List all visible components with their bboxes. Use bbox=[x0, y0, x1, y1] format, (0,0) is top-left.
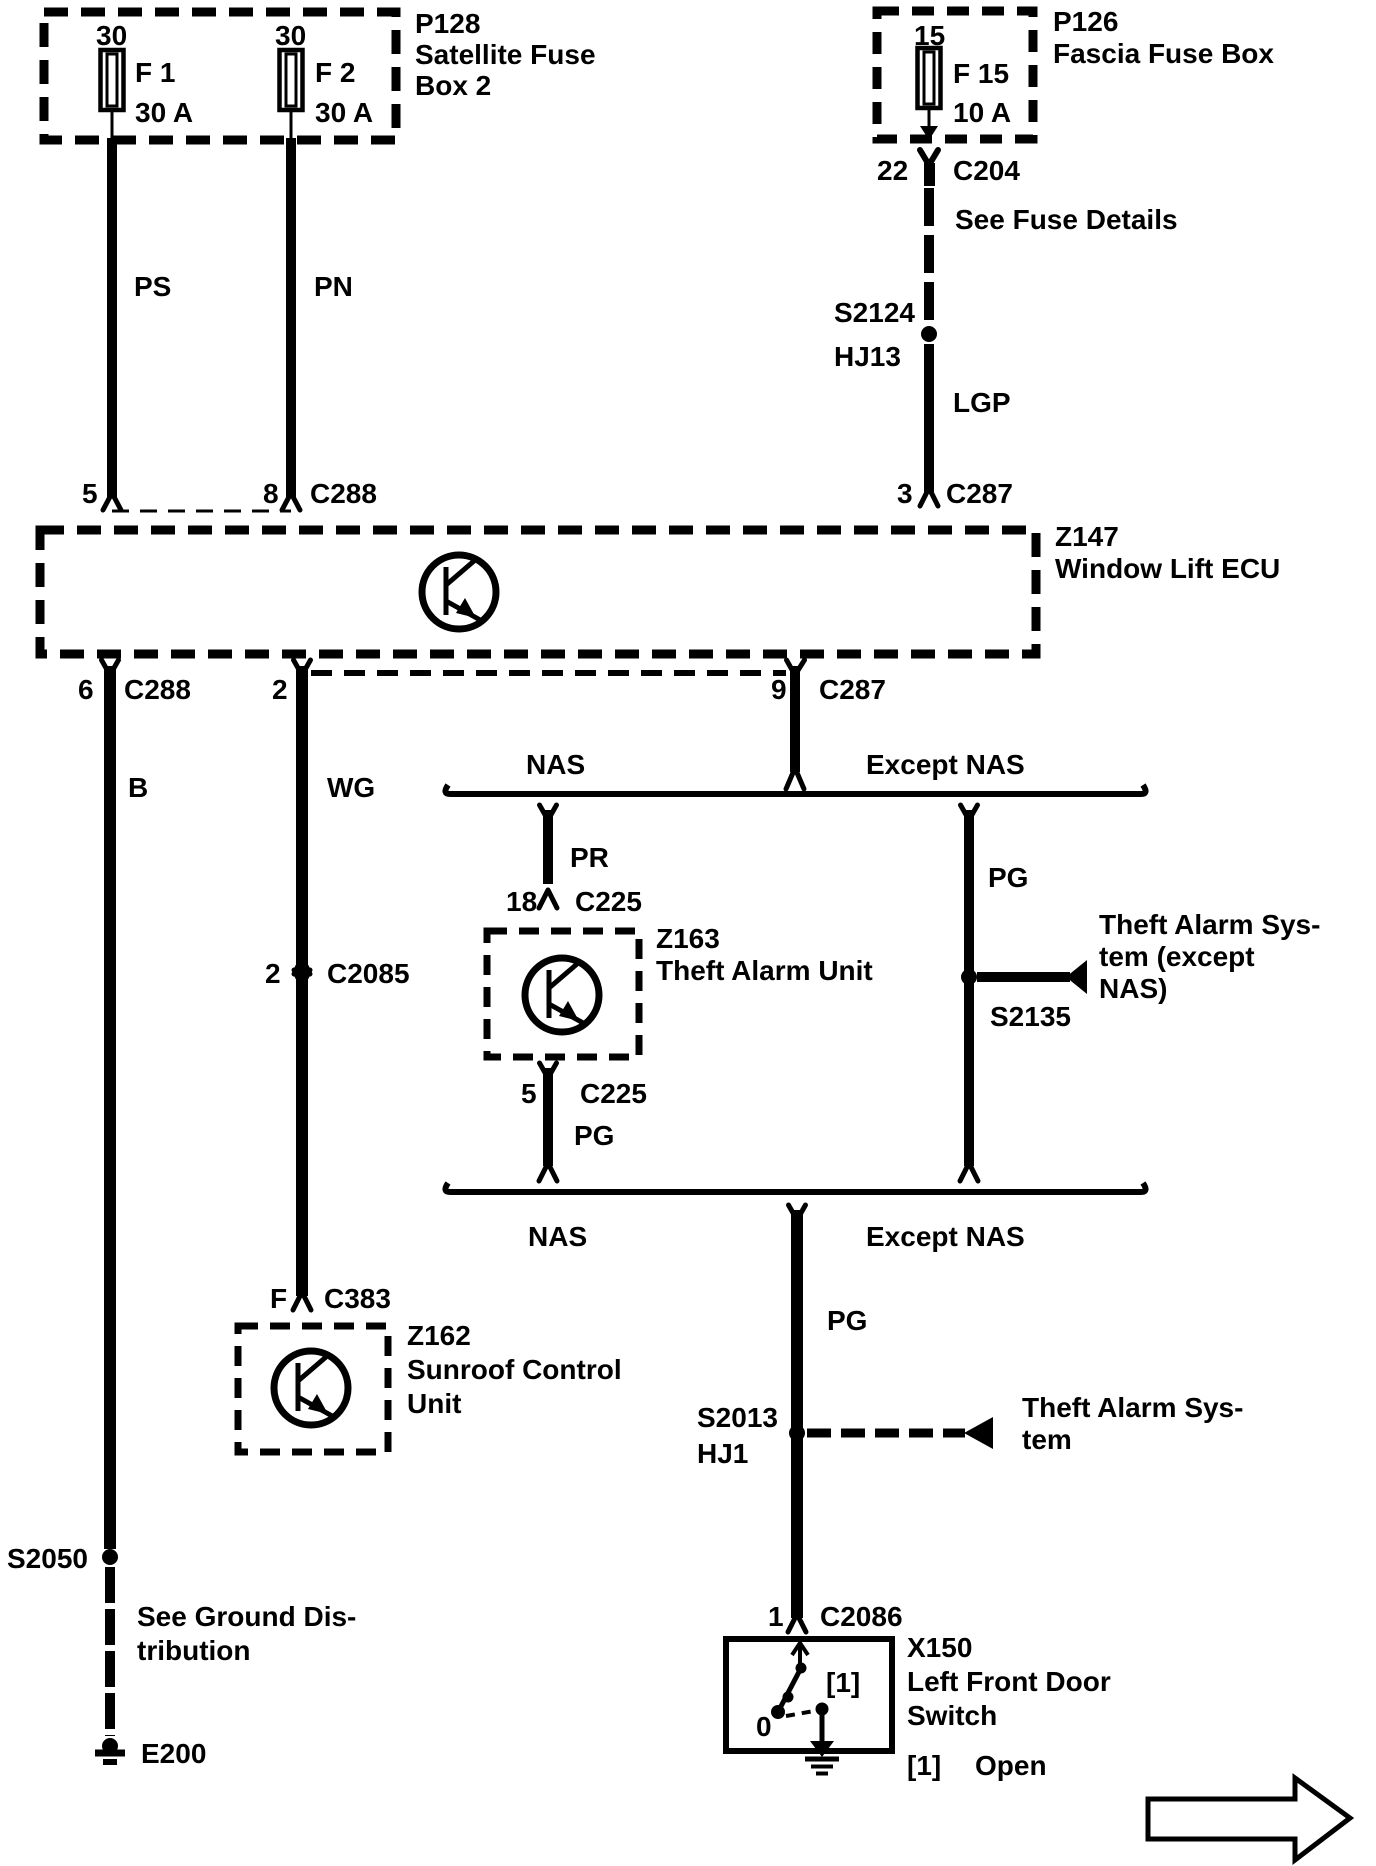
svg-text:8: 8 bbox=[263, 478, 279, 509]
svg-text:See Fuse Details: See Fuse Details bbox=[955, 204, 1178, 235]
ground inside switch bbox=[820, 1709, 825, 1744]
svg-text:Open: Open bbox=[975, 1750, 1047, 1781]
dashed link to theft alarm bbox=[807, 1429, 965, 1438]
switch lever bbox=[798, 1646, 802, 1664]
svg-text:E200: E200 bbox=[141, 1738, 206, 1769]
svg-text:C225: C225 bbox=[575, 886, 642, 917]
svg-text:C225: C225 bbox=[580, 1078, 647, 1109]
svg-text:C287: C287 bbox=[946, 478, 1013, 509]
svg-text:WG: WG bbox=[327, 772, 375, 803]
svg-text:Left Front Door: Left Front Door bbox=[907, 1666, 1111, 1697]
pin 9 connector C287 bbox=[787, 660, 805, 675]
svg-text:NAS: NAS bbox=[528, 1221, 587, 1252]
wire, see fuse details bbox=[924, 188, 934, 324]
splice S2124 HJ13 bbox=[921, 326, 937, 342]
svg-text:22: 22 bbox=[877, 155, 908, 186]
wire PS bbox=[107, 138, 117, 497]
svg-text:F 1: F 1 bbox=[135, 57, 175, 88]
pin 5 connector C288 bbox=[103, 493, 121, 510]
svg-text:HJ13: HJ13 bbox=[834, 341, 901, 372]
svg-text:[1]: [1] bbox=[826, 1667, 860, 1698]
pin 1 connector C2086 bbox=[788, 1614, 806, 1632]
svg-text:C288: C288 bbox=[310, 478, 377, 509]
svg-text:S2013: S2013 bbox=[697, 1402, 778, 1433]
svg-text:Window Lift ECU: Window Lift ECU bbox=[1055, 553, 1280, 584]
svg-text:S2050: S2050 bbox=[7, 1543, 88, 1574]
svg-text:30 A: 30 A bbox=[135, 97, 193, 128]
wire PN bbox=[286, 138, 296, 497]
theft alarm unit Z163 bbox=[487, 931, 639, 1057]
svg-text:C287: C287 bbox=[819, 674, 886, 705]
svg-text:tem (except: tem (except bbox=[1099, 941, 1255, 972]
splice S2135 bbox=[961, 969, 977, 985]
motor symbol U1 bbox=[422, 555, 496, 629]
svg-text:C2086: C2086 bbox=[820, 1601, 903, 1632]
svg-text:HJ1: HJ1 bbox=[697, 1438, 748, 1469]
svg-text:Box 2: Box 2 bbox=[415, 70, 491, 101]
svg-text:F 15: F 15 bbox=[953, 58, 1009, 89]
motor symbol bbox=[525, 958, 599, 1032]
svg-text:Theft Alarm Sys-: Theft Alarm Sys- bbox=[1022, 1392, 1243, 1423]
connector line C287 bbox=[311, 670, 786, 676]
svg-text:F: F bbox=[270, 1283, 287, 1314]
svg-text:PR: PR bbox=[570, 842, 609, 873]
svg-text:9: 9 bbox=[771, 674, 787, 705]
pin 6 connector C288 bbox=[102, 660, 119, 675]
svg-text:Unit: Unit bbox=[407, 1388, 461, 1419]
bus NAS / Except NAS upper bbox=[445, 785, 1145, 794]
svg-text:6: 6 bbox=[78, 674, 94, 705]
svg-text:PN: PN bbox=[314, 271, 353, 302]
sunroof control unit Z162 bbox=[238, 1326, 388, 1452]
svg-text:F 2: F 2 bbox=[315, 57, 355, 88]
svg-text:X150: X150 bbox=[907, 1632, 972, 1663]
svg-text:tem: tem bbox=[1022, 1424, 1072, 1455]
svg-text:Fascia Fuse Box: Fascia Fuse Box bbox=[1053, 38, 1274, 69]
svg-text:30: 30 bbox=[96, 20, 127, 51]
svg-text:B: B bbox=[128, 772, 148, 803]
svg-text:5: 5 bbox=[82, 478, 98, 509]
pin 22 connector C204 bbox=[920, 150, 938, 165]
svg-text:3: 3 bbox=[897, 478, 913, 509]
svg-text:PS: PS bbox=[134, 271, 171, 302]
splice S2013 HJ1 bbox=[789, 1425, 805, 1441]
svg-text:[1]: [1] bbox=[907, 1750, 941, 1781]
svg-text:NAS): NAS) bbox=[1099, 973, 1167, 1004]
door switch X150 bbox=[726, 1639, 892, 1751]
svg-text:18: 18 bbox=[506, 886, 537, 917]
fuse box P126 bbox=[877, 11, 1033, 139]
svg-text:tribution: tribution bbox=[137, 1635, 251, 1666]
svg-text:C383: C383 bbox=[324, 1283, 391, 1314]
svg-text:10 A: 10 A bbox=[953, 97, 1011, 128]
pin 5 wire PG bbox=[540, 1063, 557, 1078]
motor symbol bbox=[274, 1351, 348, 1425]
svg-text:5: 5 bbox=[521, 1078, 537, 1109]
svg-text:LGP: LGP bbox=[953, 387, 1011, 418]
svg-text:See Ground Dis-: See Ground Dis- bbox=[137, 1601, 356, 1632]
svg-text:30 A: 30 A bbox=[315, 97, 373, 128]
pin 8 connector C288 bbox=[282, 493, 300, 510]
ECU Z147 bbox=[40, 530, 1036, 654]
wire PG to door switch bbox=[789, 1205, 806, 1220]
svg-text:C288: C288 bbox=[124, 674, 191, 705]
svg-text:C204: C204 bbox=[953, 155, 1020, 186]
svg-text:30: 30 bbox=[275, 20, 306, 51]
svg-text:C2085: C2085 bbox=[327, 958, 410, 989]
wire pin 9 to bus bbox=[790, 666, 800, 772]
svg-text:Theft Alarm Sys-: Theft Alarm Sys- bbox=[1099, 909, 1320, 940]
svg-text:Except NAS: Except NAS bbox=[866, 1221, 1025, 1252]
direction arrow bbox=[1148, 1778, 1350, 1860]
svg-text:NAS: NAS bbox=[526, 749, 585, 780]
svg-text:S2124: S2124 bbox=[834, 297, 915, 328]
wire PG except NAS bbox=[961, 805, 978, 820]
svg-text:PG: PG bbox=[988, 862, 1028, 893]
ground E200 bbox=[102, 1738, 118, 1754]
wire LGP bbox=[924, 344, 934, 492]
svg-text:PG: PG bbox=[574, 1120, 614, 1151]
svg-text:Satellite Fuse: Satellite Fuse bbox=[415, 39, 596, 70]
svg-text:Z162: Z162 bbox=[407, 1320, 471, 1351]
svg-text:1: 1 bbox=[768, 1601, 784, 1632]
svg-text:Z163: Z163 bbox=[656, 923, 720, 954]
pin F connector C383 bbox=[293, 1292, 311, 1310]
splice S2050 bbox=[102, 1549, 118, 1565]
svg-text:P128: P128 bbox=[415, 8, 480, 39]
bus NAS / Except NAS lower bbox=[445, 1183, 1145, 1192]
connector line C288 bbox=[112, 510, 291, 513]
wire to ground bbox=[105, 1567, 115, 1736]
wire WG bbox=[296, 666, 308, 1296]
svg-text:P126: P126 bbox=[1053, 6, 1118, 37]
svg-text:Switch: Switch bbox=[907, 1700, 997, 1731]
svg-text:S2135: S2135 bbox=[990, 1001, 1071, 1032]
fuse box P128 bbox=[44, 12, 396, 140]
svg-text:PG: PG bbox=[827, 1305, 867, 1336]
svg-text:Z147: Z147 bbox=[1055, 521, 1119, 552]
pin 3 connector C287 bbox=[920, 488, 938, 506]
svg-text:Theft Alarm Unit: Theft Alarm Unit bbox=[656, 955, 873, 986]
svg-text:Sunroof Control: Sunroof Control bbox=[407, 1354, 622, 1385]
wire B bbox=[104, 666, 116, 1549]
svg-text:2: 2 bbox=[265, 958, 281, 989]
svg-text:0: 0 bbox=[756, 1711, 772, 1742]
svg-text:Except NAS: Except NAS bbox=[866, 749, 1025, 780]
wire PR bbox=[540, 805, 557, 820]
inline connector 2 C2085 bbox=[294, 958, 310, 986]
svg-text:2: 2 bbox=[272, 674, 288, 705]
pin 2 connector bbox=[294, 660, 311, 675]
